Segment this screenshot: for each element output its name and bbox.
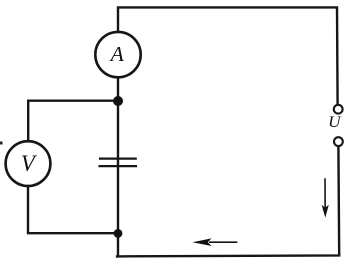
svg-text:V: V — [21, 151, 38, 176]
svg-text:U: U — [328, 114, 342, 131]
svg-text:A: A — [109, 42, 125, 66]
